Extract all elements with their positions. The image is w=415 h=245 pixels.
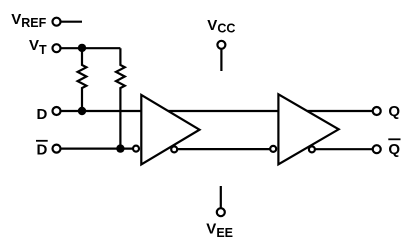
wire VCC stub: [220, 49, 222, 71]
junction R2 / Dbar line: [116, 144, 124, 152]
U2 inverting input bubble: [270, 146, 276, 152]
terminal Q: [373, 107, 381, 115]
terminal VT: [53, 44, 61, 52]
label Qbar: [388, 139, 400, 158]
wire U2 complement output to Qbar: [313, 148, 372, 150]
wire VREF stub: [61, 21, 83, 23]
U1 inverting input bubble: [133, 146, 139, 152]
U1 inverted output bubble: [171, 146, 177, 152]
resistor R2: [116, 48, 125, 148]
wire U1 true output to U2: [166, 110, 279, 112]
wire U1 complement output to U2 bubble: [175, 148, 272, 150]
terminal D: [53, 107, 61, 115]
wire U2 true output to Q: [304, 110, 372, 112]
wire VEE stub: [220, 186, 222, 208]
wire D input to U1: [61, 110, 143, 112]
terminal Dbar: [53, 145, 61, 153]
terminal Qbar: [373, 145, 381, 153]
buffer U2: [278, 94, 338, 164]
terminal VEE: [217, 208, 225, 216]
svg-text:Q: Q: [388, 141, 400, 158]
svg-text:D: D: [37, 106, 48, 123]
buffer U1: [141, 95, 199, 164]
terminal VCC: [217, 41, 225, 49]
svg-text:VCC: VCC: [207, 17, 235, 36]
terminal VREF: [53, 18, 61, 26]
wire Dbar input to U1 bubble: [61, 148, 136, 150]
svg-text:VEE: VEE: [206, 220, 233, 240]
label Dbar: [36, 141, 48, 159]
svg-text:VREF: VREF: [11, 11, 46, 30]
wire VT to corner: [61, 47, 121, 49]
junction VT / R1: [78, 44, 86, 52]
junction R1 / D line: [78, 107, 86, 115]
resistor R1: [78, 48, 87, 111]
svg-text:D: D: [37, 141, 48, 158]
svg-text:Q: Q: [388, 103, 400, 120]
U2 inverted output bubble: [309, 146, 315, 152]
svg-text:VT: VT: [29, 37, 47, 57]
